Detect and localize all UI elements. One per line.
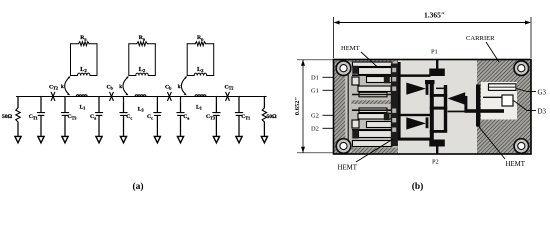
svg-text:k: k <box>61 85 64 90</box>
svg-text:D2: D2 <box>311 126 319 133</box>
svg-text:Cb: Cb <box>165 84 172 90</box>
svg-text:D3: D3 <box>538 108 547 115</box>
svg-text:Rn: Rn <box>139 35 146 41</box>
svg-text:HEMT: HEMT <box>506 161 526 168</box>
svg-text:L2: L2 <box>80 66 87 73</box>
svg-text:L1: L1 <box>196 104 202 110</box>
svg-text:CT3: CT3 <box>206 114 215 120</box>
svg-text:1.365″: 1.365″ <box>424 11 445 20</box>
svg-text:G2: G2 <box>311 113 319 120</box>
svg-text:Cc: Cc <box>147 114 153 120</box>
svg-text:P2: P2 <box>432 159 439 166</box>
svg-text:(a): (a) <box>132 181 143 192</box>
svg-text:CT2: CT2 <box>49 84 58 90</box>
svg-text:L1: L1 <box>80 104 86 110</box>
svg-text:Cb: Cb <box>107 84 114 90</box>
svg-text:50Ω: 50Ω <box>267 114 278 120</box>
svg-text:(b): (b) <box>412 181 424 192</box>
svg-text:G3: G3 <box>538 89 547 96</box>
svg-text:L3: L3 <box>138 106 144 112</box>
svg-text:L2: L2 <box>139 66 146 73</box>
svg-text:50Ω: 50Ω <box>2 114 13 120</box>
svg-text:0.652″: 0.652″ <box>294 97 301 115</box>
svg-text:D1: D1 <box>311 75 319 82</box>
svg-text:k: k <box>178 85 181 90</box>
svg-text:HEMT: HEMT <box>341 45 360 52</box>
svg-text:k: k <box>119 85 122 90</box>
svg-text:Ca: Ca <box>90 114 96 120</box>
svg-text:P1: P1 <box>431 49 438 56</box>
svg-text:CT1: CT1 <box>241 114 250 120</box>
svg-text:CARRIER: CARRIER <box>466 35 495 42</box>
svg-text:G1: G1 <box>311 88 319 95</box>
svg-text:CT3: CT3 <box>68 114 77 120</box>
svg-text:CT1: CT1 <box>29 114 38 120</box>
svg-text:L2: L2 <box>197 66 204 73</box>
svg-text:Ca: Ca <box>183 114 189 120</box>
svg-text:Rn: Rn <box>197 35 204 41</box>
svg-text:Cc: Cc <box>126 114 132 120</box>
svg-text:HEMT: HEMT <box>338 164 358 171</box>
svg-text:Rn: Rn <box>80 35 87 41</box>
svg-text:CT2: CT2 <box>225 84 234 90</box>
